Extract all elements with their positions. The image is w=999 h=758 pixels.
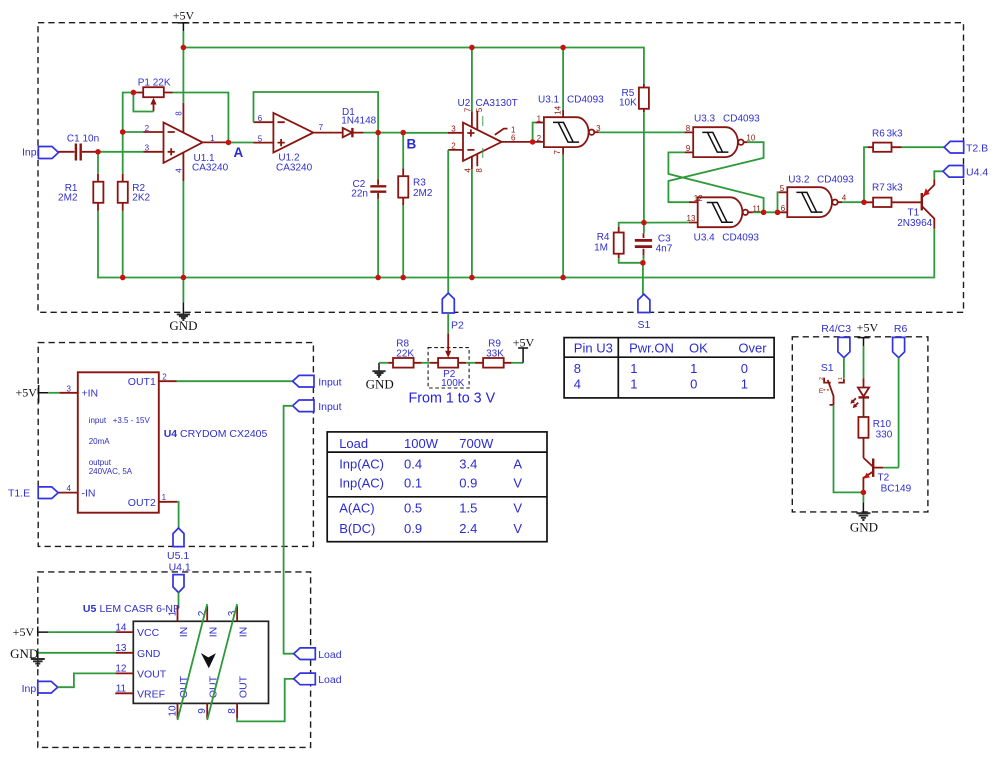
svg-text:2.4: 2.4: [459, 521, 477, 536]
resistor R10 330: [858, 397, 892, 458]
node R2/rail: [120, 275, 125, 280]
svg-text:7: 7: [319, 123, 324, 132]
svg-text:10: 10: [746, 133, 755, 142]
wire Input lower to Load upper: [284, 406, 294, 654]
U5 section dashed box: [38, 572, 311, 748]
svg-text:4: 4: [574, 376, 581, 391]
wire D1 to node B: [364, 132, 404, 134]
node U1.1 output: [226, 140, 231, 145]
svg-text:9: 9: [197, 708, 208, 714]
svg-text:8: 8: [686, 124, 691, 133]
wire Inp to U5 VOUT: [58, 673, 116, 687]
svg-text:R6: R6: [872, 128, 885, 139]
svg-text:-IN: -IN: [82, 487, 96, 499]
capacitor C1: [59, 134, 100, 161]
node T2 emitter: [861, 490, 866, 495]
svg-text:1: 1: [210, 134, 215, 143]
svg-text:100W: 100W: [404, 436, 439, 451]
svg-text:0.4: 0.4: [404, 457, 422, 472]
svg-text:U4: U4: [164, 428, 178, 440]
wire U3.1 out to U3.3 pin8: [599, 131, 685, 133]
svg-text:T1.E: T1.E: [8, 488, 30, 500]
wire U5 internal diagonal 9-3: [207, 604, 237, 720]
wire R2 top to pin2 node: [122, 132, 124, 174]
connector T1.E: [8, 487, 58, 500]
svg-text:8: 8: [475, 168, 484, 173]
svg-text:CA3130T: CA3130T: [476, 98, 518, 109]
svg-text:GND: GND: [137, 648, 161, 660]
svg-text:V: V: [513, 475, 522, 490]
svg-text:R10: R10: [873, 419, 892, 430]
svg-text:A: A: [513, 457, 522, 472]
wire latch out11 to U3.3 pin9: [668, 152, 763, 212]
potentiometer P1 22K: [133, 78, 172, 112]
connector Input (lower): [293, 400, 342, 413]
wire U4 OUT1 to Input: [177, 380, 293, 382]
svg-text:CD4093: CD4093: [817, 175, 854, 186]
svg-text:OUT1: OUT1: [128, 376, 156, 388]
wire +5V stem to rail: [182, 31, 184, 48]
wire U5 pin8 to Load lower: [237, 679, 294, 722]
capacitor C2: [351, 133, 386, 278]
svg-text:U3.3: U3.3: [694, 114, 716, 125]
svg-text:OK: OK: [689, 340, 708, 355]
svg-text:From 1 to 3 V: From 1 to 3 V: [409, 390, 496, 406]
svg-text:5: 5: [475, 107, 484, 112]
svg-text:T2: T2: [878, 473, 890, 484]
connector U4.4: [943, 166, 988, 179]
connector R6: [893, 337, 905, 357]
resistor R2: [118, 174, 151, 211]
svg-text:Pin U3: Pin U3: [574, 340, 613, 355]
svg-text:output: output: [89, 458, 112, 467]
node P1 left/wiper: [131, 90, 136, 95]
node R4/C3 bottom: [640, 260, 645, 265]
svg-text:0: 0: [741, 361, 748, 376]
svg-text:0.9: 0.9: [459, 475, 477, 490]
node U3.1 pin14/rail: [560, 45, 565, 50]
node pin2/R2: [120, 129, 125, 134]
svg-text:2N3964: 2N3964: [897, 218, 932, 229]
svg-text:2: 2: [537, 134, 542, 143]
svg-text:10K: 10K: [619, 98, 637, 109]
wire U2 pin7 to +5V rail: [471, 48, 473, 112]
svg-text:1: 1: [630, 361, 637, 376]
svg-text:1: 1: [741, 376, 748, 391]
wire U1.2 feedback pin6 to D1 cathode node: [254, 92, 379, 133]
wire T1 emitter to U4.4 connector: [934, 171, 943, 179]
wire node up to R6: [864, 147, 868, 202]
diode D1 1N4148: [333, 107, 376, 137]
connector R4/C3: [838, 337, 850, 357]
svg-text:2: 2: [197, 610, 208, 616]
resistor R7 3k3: [866, 183, 921, 207]
capacitor C3 4n7: [635, 223, 673, 258]
svg-text:3k3: 3k3: [887, 128, 904, 139]
wire U2 out to U3.1 inputs: [533, 123, 536, 142]
nand gate U3.4 CD4093: [687, 194, 762, 244]
wire U2 pin4 to ground rail: [471, 169, 473, 277]
svg-text:IN: IN: [178, 627, 190, 638]
power +5V symbol (P2 divider): [513, 335, 535, 362]
svg-text:GND: GND: [366, 377, 394, 392]
wire U2 pin2 down to P2 connector: [447, 150, 449, 293]
wire P1 right to feedback: [173, 93, 229, 143]
svg-text:5: 5: [258, 134, 263, 143]
svg-text:1: 1: [168, 610, 179, 616]
svg-text:14: 14: [115, 622, 127, 633]
svg-text:CD4093: CD4093: [567, 95, 604, 106]
sensor U5 LEM CASR 6-NP: [83, 603, 269, 719]
svg-text:CD4093: CD4093: [722, 232, 759, 243]
wire P2 connector to wiper: [447, 313, 449, 334]
svg-text:U4.4: U4.4: [966, 166, 988, 178]
svg-text:20mA: 20mA: [89, 437, 111, 446]
node C1/R1/pin3: [95, 149, 100, 154]
svg-text:2K2: 2K2: [132, 193, 150, 204]
svg-text:Pwr.ON: Pwr.ON: [629, 340, 674, 355]
svg-text:+5V: +5V: [15, 386, 37, 400]
svg-text:2M2: 2M2: [413, 188, 433, 199]
junction dots overlay: [95, 45, 866, 495]
svg-text:P2: P2: [451, 319, 464, 331]
connector Inp: [22, 147, 59, 159]
wire P1 node to pin2 node: [123, 93, 134, 133]
node R3 top: [401, 130, 406, 135]
wire GND to R8: [379, 362, 388, 364]
svg-text:2: 2: [451, 142, 456, 151]
nand gate U3.2 CD4093: [779, 175, 854, 218]
svg-text:1: 1: [838, 377, 844, 380]
svg-text:Over: Over: [738, 340, 767, 355]
switch S1: [819, 358, 844, 405]
svg-text:CD4093: CD4093: [723, 114, 760, 125]
svg-text:S1: S1: [821, 362, 834, 374]
svg-text:R7: R7: [872, 183, 885, 194]
svg-text:OUT2: OUT2: [128, 497, 156, 509]
wire bottom ground rail: [98, 211, 934, 278]
wire R2 bottom to rail: [122, 211, 124, 278]
connector Inp (U5): [22, 681, 58, 694]
svg-text:CA3240: CA3240: [192, 163, 229, 174]
svg-text:Input: Input: [318, 401, 341, 413]
svg-text:+5V: +5V: [13, 625, 35, 639]
wire S1 to T2 emitter node: [834, 405, 864, 492]
svg-text:4: 4: [175, 168, 184, 173]
svg-text:GND: GND: [850, 520, 878, 535]
svg-text:0.9: 0.9: [404, 521, 422, 536]
svg-text:8: 8: [175, 111, 184, 116]
svg-text:13: 13: [115, 643, 127, 654]
main dashed enclosure box: [38, 23, 964, 313]
wire +5V to U5 VCC: [48, 631, 115, 633]
connector Load (upper): [294, 648, 342, 661]
svg-text:1: 1: [537, 114, 542, 123]
svg-text:R4/C3: R4/C3: [821, 323, 851, 335]
svg-text:2M2: 2M2: [58, 193, 78, 204]
wire R5 bottom to R4/C3 node: [643, 112, 645, 222]
resistor R4 1M: [594, 223, 644, 263]
svg-text:B(DC): B(DC): [339, 521, 375, 536]
ground GND symbol (T2): [850, 492, 878, 534]
wire U3.2 out to R6/R7 node: [842, 201, 866, 203]
svg-text:IN: IN: [208, 627, 220, 638]
svg-text:OUT: OUT: [238, 675, 250, 698]
svg-text:U3.1: U3.1: [538, 95, 560, 106]
potentiometer P2 100K: [428, 334, 469, 390]
svg-text:12: 12: [115, 664, 127, 675]
node pin4/GND/rail: [181, 275, 186, 280]
svg-text:B: B: [407, 137, 417, 152]
svg-text:6: 6: [258, 114, 263, 123]
svg-text:C1 10n: C1 10n: [67, 134, 99, 145]
svg-text:3: 3: [145, 144, 150, 153]
svg-text:1.5: 1.5: [459, 500, 477, 515]
resistor R6 3k3: [868, 128, 903, 152]
connector Load (lower): [294, 673, 342, 686]
power +5V symbol (U5): [13, 625, 49, 639]
svg-text:U5.1: U5.1: [167, 550, 189, 562]
svg-text:2: 2: [145, 124, 150, 133]
svg-text:VOUT: VOUT: [137, 669, 167, 681]
resistor R5 10K: [619, 84, 649, 112]
wire P1 wiper to left node: [133, 93, 153, 112]
svg-text:+IN: +IN: [82, 388, 99, 400]
svg-text:U5: U5: [83, 603, 97, 615]
node U3.2 pin5 tap: [775, 210, 780, 215]
connector U5.1: [167, 528, 189, 562]
wire P2 to R9: [466, 362, 475, 364]
svg-text:11: 11: [116, 684, 127, 695]
LED D2: [850, 378, 869, 408]
wire U1.1 pin4 to rail: [182, 181, 184, 278]
transistor T1 2N3964: [897, 179, 934, 229]
svg-text:0: 0: [690, 376, 697, 391]
svg-text:6: 6: [511, 133, 516, 142]
svg-text:6: 6: [781, 204, 786, 213]
wire U3.1 pin14 to rail: [562, 48, 564, 110]
wire +5V top rail: [183, 48, 644, 85]
svg-text:CRYDOM CX2405: CRYDOM CX2405: [180, 428, 267, 440]
svg-text:S1: S1: [638, 319, 651, 331]
svg-text:3k3: 3k3: [887, 183, 904, 194]
svg-text:8: 8: [574, 361, 581, 376]
svg-text:1N4148: 1N4148: [341, 116, 376, 127]
ground GND symbol (U5): [10, 646, 45, 666]
connector S1 (bottom of main box): [638, 294, 651, 331]
svg-text:Load: Load: [318, 674, 342, 686]
svg-text:22n: 22n: [351, 189, 368, 200]
op-amp U1.2: [254, 113, 334, 173]
svg-text:1: 1: [630, 376, 637, 391]
connector T2.B: [944, 141, 988, 154]
svg-text:5: 5: [780, 184, 785, 193]
svg-text:+5V: +5V: [173, 9, 195, 23]
wire node down to rail and S1 connector: [642, 263, 644, 294]
svg-text:14: 14: [554, 105, 563, 114]
wire GND to U5 pin13: [38, 652, 115, 654]
wire R9 to +5V: [512, 362, 523, 364]
svg-text:0.5: 0.5: [404, 500, 422, 515]
svg-text:input +3.5 - 15V: input +3.5 - 15V: [89, 416, 151, 425]
svg-text:3: 3: [227, 610, 238, 616]
svg-text:A: A: [234, 145, 244, 160]
wire R8 to P2: [422, 362, 431, 364]
svg-text:VCC: VCC: [137, 627, 160, 639]
node R3/rail: [401, 275, 406, 280]
nand gate U3.1 CD4093: [535, 95, 604, 155]
node U3.2 out: [861, 200, 866, 205]
svg-text:3.4: 3.4: [459, 457, 477, 472]
wire C3 bottom to node: [643, 255, 645, 263]
power +5V bar (T2 box): [858, 338, 870, 346]
wire C1 node to pin3: [98, 151, 143, 153]
wire A node to U1.2 pin5: [228, 142, 253, 144]
wire C1 node down to R1: [97, 152, 99, 174]
svg-text:Inp(AC): Inp(AC): [339, 475, 384, 490]
resistor R3: [398, 133, 433, 278]
wire T2 base to R6 connector: [883, 358, 898, 468]
connector Input (upper): [293, 375, 342, 388]
ground GND main symbol: [169, 278, 197, 334]
svg-text:V: V: [513, 500, 522, 515]
ground GND symbol (P2 divider): [366, 363, 394, 392]
svg-text:Input: Input: [318, 376, 341, 388]
node U2 output: [530, 139, 535, 144]
svg-text:9: 9: [686, 144, 691, 153]
svg-text:0.1: 0.1: [404, 475, 422, 490]
table Pin U3: [564, 338, 774, 398]
svg-text:Inp(AC): Inp(AC): [339, 457, 384, 472]
table Load: [327, 432, 547, 542]
svg-text:GND: GND: [169, 318, 197, 333]
svg-text:8: 8: [227, 708, 238, 714]
svg-text:4: 4: [66, 484, 71, 493]
resistor R9 33K: [475, 339, 512, 368]
wire node to U3.4 pin13: [644, 222, 689, 224]
wire U5 internal diagonal 10-2: [178, 604, 208, 720]
wire latch out10 to U3.4 pin12: [668, 142, 763, 202]
svg-text:U4.1: U4.1: [169, 562, 191, 574]
wire U4.1 to U5 pin1: [178, 593, 180, 606]
svg-text:CA3240: CA3240: [276, 162, 313, 173]
svg-text:R6: R6: [894, 323, 908, 335]
svg-text:10: 10: [168, 705, 179, 717]
svg-text:3: 3: [451, 124, 456, 133]
svg-text:7: 7: [553, 150, 562, 155]
op-amp U1.1: [143, 103, 228, 181]
svg-text:1: 1: [162, 493, 167, 502]
node U2 pin4/rail: [469, 275, 474, 280]
wire U4 OUT2 to U5.1: [177, 502, 179, 528]
svg-text:Inp: Inp: [22, 147, 37, 159]
node +5V rail/U1: [181, 45, 186, 50]
T2 section dashed box: [792, 337, 928, 512]
svg-text:Inp: Inp: [22, 683, 37, 695]
svg-text:240VAC, 5A: 240VAC, 5A: [89, 467, 133, 476]
node R5/R4/C3/pin13: [641, 220, 646, 225]
wire tap to U3.2 pin5: [778, 192, 779, 212]
svg-text:12: 12: [694, 194, 703, 203]
svg-text:100K: 100K: [441, 378, 465, 389]
wire U3.4 out to U3.2 pin6: [753, 211, 779, 213]
svg-text:1: 1: [690, 361, 697, 376]
connector P2 (bottom of main box): [442, 293, 464, 331]
svg-text:BC149: BC149: [881, 484, 912, 495]
node out11/latch: [761, 210, 766, 215]
op-amp U2 CA3130T: [448, 98, 532, 173]
wire R6 to T2.B connector: [902, 146, 944, 148]
U4 section dashed box: [38, 343, 313, 547]
svg-text:VREF: VREF: [137, 688, 165, 700]
transistor T2 BC149: [863, 458, 911, 495]
wire +5V to LED: [863, 346, 865, 378]
svg-text:IN: IN: [238, 627, 250, 638]
svg-text:330: 330: [876, 429, 893, 440]
svg-text:T1: T1: [908, 208, 920, 219]
svg-text:4n7: 4n7: [656, 244, 673, 255]
svg-text:U2: U2: [458, 98, 471, 109]
svg-text:700W: 700W: [459, 436, 494, 451]
wire U3.1 pin7 to ground rail: [562, 155, 564, 278]
nand gate U3.3 CD4093: [685, 114, 761, 158]
svg-text:2: 2: [819, 377, 825, 380]
svg-text:2: 2: [162, 373, 167, 382]
wire U1.1 pin8 from +5V vertical: [182, 48, 184, 103]
node C2/rail: [375, 275, 380, 280]
node U2 pin7/rail: [469, 45, 474, 50]
wire node B to U2 pin3: [403, 132, 448, 134]
svg-text:V: V: [513, 521, 522, 536]
wire pin2 node to U1.1 pin2: [123, 131, 144, 133]
resistor R1: [58, 174, 103, 211]
relay U4 CRYDOM CX2405: [58, 372, 267, 512]
svg-text:1M: 1M: [594, 242, 608, 253]
connector U4.1: [169, 562, 191, 593]
svg-text:T2.B: T2.B: [966, 142, 988, 154]
svg-text:Load: Load: [318, 649, 342, 661]
svg-text:Load: Load: [339, 436, 368, 451]
svg-text:U3.2: U3.2: [788, 175, 810, 186]
svg-text:A(AC): A(AC): [339, 500, 374, 515]
node D1/C2: [375, 130, 380, 135]
svg-text:+5V: +5V: [857, 321, 879, 335]
svg-text:E: E: [819, 388, 824, 395]
node U3.1 pin7/rail: [560, 275, 565, 280]
svg-text:U3.4: U3.4: [694, 232, 716, 243]
resistor R8 22K: [388, 339, 421, 368]
power +5V symbol (U4): [15, 385, 48, 403]
wire +5V to U4 pin3: [48, 392, 59, 394]
power +5V top symbol: [173, 9, 195, 32]
